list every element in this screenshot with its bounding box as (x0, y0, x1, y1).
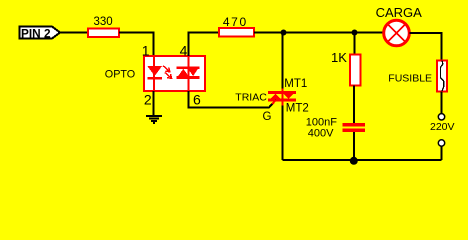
wire: junction down to R1K (354, 33, 356, 56)
svg-text:FUSIBLE: FUSIBLE (388, 72, 432, 84)
wire: R330 to opto pin 1 (119, 33, 154, 57)
lamp CARGA (384, 20, 410, 46)
wire: lamp to fuse (410, 33, 442, 61)
svg-text:4: 4 (180, 42, 188, 58)
svg-text:400V: 400V (308, 128, 334, 140)
svg-text:1: 1 (142, 42, 150, 58)
junction: triac branch (281, 30, 287, 36)
svg-text:220V: 220V (430, 121, 455, 133)
svg-text:OPTO: OPTO (105, 68, 135, 80)
junction: snubber to bottom rail (350, 157, 358, 165)
opto U1 body (144, 56, 205, 91)
wire: opto pin 6 to triac gate (188, 91, 276, 108)
wire: bottom rail (283, 159, 442, 161)
opto light arrows (163, 66, 172, 79)
opto internal wire (LED side) (153, 57, 155, 90)
svg-text:1K: 1K (331, 50, 347, 65)
opto LED diode (147, 66, 162, 79)
svg-text:2: 2 (144, 92, 152, 108)
svg-text:330: 330 (94, 16, 113, 28)
svg-text:MT1: MT1 (284, 78, 307, 90)
svg-text:PIN 2: PIN 2 (21, 27, 51, 41)
wire: opto pin 2 to ground (153, 91, 155, 116)
svg-text:6: 6 (193, 92, 201, 108)
resistor 330 (88, 29, 119, 38)
triac gate lead (red part) (272, 100, 276, 104)
junction: snubber branch (352, 30, 358, 36)
fuse FUSIBLE (437, 61, 447, 92)
svg-text:CARGA: CARGA (376, 5, 423, 20)
opto internal wire (triac side) (187, 57, 189, 90)
wire: triac MT2 down to bottom rail (282, 101, 284, 160)
resistor 470 (219, 28, 254, 37)
wire: R470 to lamp (top rail) (254, 32, 383, 34)
svg-text:MT2: MT2 (286, 103, 309, 115)
svg-text:TRIAC: TRIAC (235, 91, 267, 103)
wire: junction down to triac MT1 (282, 33, 284, 90)
node PIN 2 input tag (20, 27, 61, 41)
wire: opto pin 4 up to R470 (188, 33, 219, 57)
capacitor 100nF (343, 123, 366, 132)
wire: fuse to top terminal (441, 92, 443, 114)
triac (268, 89, 296, 106)
resistor 1K (350, 55, 361, 86)
wire: R1K to capacitor (353, 86, 355, 124)
wire: capacitor to bottom rail (353, 132, 355, 160)
svg-text:G: G (263, 111, 272, 123)
wire: PIN2 tag to R330 (60, 32, 88, 34)
terminal 220V bottom (438, 140, 444, 146)
svg-text:470: 470 (223, 15, 248, 29)
ground (146, 116, 162, 123)
wire: bottom terminal to rail (441, 146, 443, 160)
terminal 220V top (438, 114, 444, 120)
opto photo-triac (177, 66, 200, 79)
